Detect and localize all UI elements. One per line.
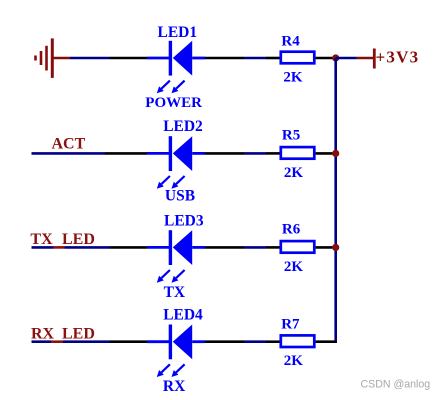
wire row4 black segment bbox=[110, 340, 148, 343]
svg-text:RX: RX bbox=[31, 325, 55, 342]
svg-text:TX: TX bbox=[30, 231, 53, 248]
wire row1 black segment to junction bbox=[316, 57, 336, 60]
svg-text:LED4: LED4 bbox=[163, 307, 203, 324]
wire row4 navy segment bbox=[32, 340, 52, 343]
wire row2 blue pin segment (LED2 cathode pin) bbox=[147, 152, 169, 155]
wire ground stub (maroon) row 1 bbox=[52, 57, 70, 60]
svg-text:LED: LED bbox=[62, 325, 95, 342]
svg-text:USB: USB bbox=[165, 188, 195, 205]
resistor R7 bbox=[281, 335, 315, 347]
wire row4 black segment to bus corner bbox=[316, 340, 337, 343]
svg-text:+3V3: +3V3 bbox=[376, 47, 420, 66]
svg-text:R7: R7 bbox=[281, 317, 300, 333]
wire row3 blue pin segment (LED3 cathode pin) bbox=[147, 246, 169, 249]
wire row3 navy segment bbox=[65, 246, 110, 249]
wire row1 navy segment bbox=[244, 57, 266, 60]
svg-text:R5: R5 bbox=[282, 127, 300, 143]
wire row3 black segment bbox=[205, 246, 244, 249]
wire row1 blue pin segment (LED1 anode pin) bbox=[192, 57, 205, 60]
LED LED2 bbox=[170, 136, 192, 171]
svg-text:LED1: LED1 bbox=[158, 24, 198, 41]
wire row4 blue pin segment (LED4 anode pin) bbox=[192, 340, 205, 343]
svg-text:2K: 2K bbox=[284, 353, 304, 369]
wire row4 black segment bbox=[205, 340, 244, 343]
resistor R6 bbox=[281, 241, 315, 253]
wire row4 blue pin segment (LED4 cathode pin) bbox=[147, 340, 169, 343]
wire row3 navy segment bbox=[32, 246, 54, 249]
LED LED1 bbox=[170, 41, 192, 76]
wire row1 blue pin segment (LED1 cathode pin) bbox=[147, 57, 169, 60]
svg-text:LED2: LED2 bbox=[163, 118, 203, 135]
wire row3 black segment to junction bbox=[316, 246, 336, 249]
wire row4 navy segment bbox=[244, 340, 266, 343]
svg-text:ACT: ACT bbox=[52, 135, 86, 152]
wire row2 black segment bbox=[205, 152, 244, 155]
LED1 emission arrows bbox=[157, 81, 185, 94]
LED3 emission arrows bbox=[157, 270, 185, 283]
wire row2 black segment to junction bbox=[316, 152, 336, 155]
wire row1 black segment bbox=[205, 57, 244, 60]
wire row1 black segment bbox=[266, 57, 280, 60]
wire row1 navy segment bbox=[70, 57, 110, 60]
wire row2 navy segment bbox=[244, 152, 266, 155]
wire row4 maroon underscore overlay bbox=[51, 340, 63, 343]
wire row3 navy segment bbox=[244, 246, 266, 249]
svg-text:TX: TX bbox=[164, 284, 186, 301]
junction node row2 bbox=[332, 150, 339, 157]
LED2 emission arrows bbox=[157, 176, 185, 189]
wire row4 black segment bbox=[266, 340, 280, 343]
resistor R5 bbox=[281, 147, 315, 159]
wire row3 black segment bbox=[110, 246, 148, 249]
svg-text:R6: R6 bbox=[282, 222, 301, 238]
LED LED3 bbox=[170, 230, 192, 265]
wire row1 navy segment after junction bbox=[336, 57, 357, 60]
svg-text:2K: 2K bbox=[284, 259, 304, 275]
wire row1 maroon segment to power bar bbox=[357, 57, 374, 60]
bus wire vertical navy bbox=[334, 58, 337, 343]
svg-text:2K: 2K bbox=[283, 69, 303, 85]
wire row3 blue pin segment (LED3 anode pin) bbox=[192, 246, 205, 249]
svg-text:POWER: POWER bbox=[145, 95, 202, 111]
wire row1 black segment bbox=[110, 57, 148, 60]
net label TX_LED bbox=[30, 231, 95, 248]
junction node row3 bbox=[332, 244, 339, 251]
wire row2 black segment bbox=[266, 152, 280, 155]
wire row2 black segment bbox=[105, 152, 147, 155]
wire row3 black segment bbox=[266, 246, 280, 249]
wire row2 blue pin segment (LED2 anode pin) bbox=[192, 152, 205, 155]
wire row3 maroon underscore overlay bbox=[54, 246, 65, 249]
ground (earth symbol, left of row 1) bbox=[36, 38, 53, 78]
net label RX_LED bbox=[31, 325, 95, 342]
svg-text:LED3: LED3 bbox=[164, 212, 204, 229]
svg-text:CSDN @anlog: CSDN @anlog bbox=[361, 378, 431, 390]
LED4 emission arrows bbox=[157, 364, 185, 377]
power +3V3 bar bbox=[373, 49, 376, 69]
junction node row1 bbox=[332, 54, 339, 61]
svg-text:R4: R4 bbox=[281, 33, 300, 49]
wire row2 navy segment bbox=[32, 152, 106, 155]
resistor R4 bbox=[281, 52, 315, 64]
svg-text:RX: RX bbox=[163, 378, 186, 395]
svg-text:2K: 2K bbox=[284, 165, 304, 181]
LED LED4 bbox=[170, 325, 192, 360]
wire row4 navy segment bbox=[63, 340, 110, 343]
svg-text:LED: LED bbox=[62, 231, 95, 248]
